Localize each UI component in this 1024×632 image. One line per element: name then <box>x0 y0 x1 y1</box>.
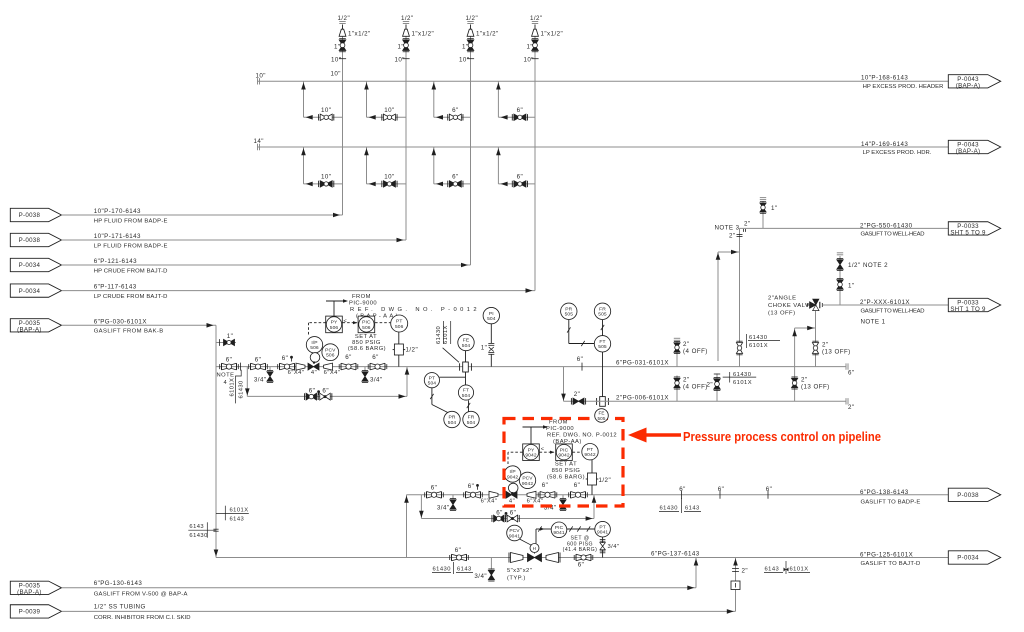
pipe 2"PG-006-6101X <box>564 400 847 402</box>
flow arrow up riser B3 <box>432 148 437 155</box>
svg-text:6": 6" <box>468 483 475 490</box>
svg-text:10": 10" <box>384 107 394 114</box>
orifice flange FE-504 <box>463 362 469 372</box>
flow arrow into riser 3 <box>461 263 468 268</box>
bypass valve B1 <box>320 181 332 187</box>
svg-text:I/P: I/P <box>311 340 317 346</box>
svg-text:1": 1" <box>462 44 469 51</box>
svg-text:10": 10" <box>256 73 266 80</box>
flag P-0033 SHT 5 TO 9 <box>948 222 1000 235</box>
svg-text:(BAP-A): (BAP-A) <box>956 148 981 155</box>
svg-text:1": 1" <box>771 205 778 212</box>
tap PT-9042 <box>591 460 593 473</box>
svg-text:6": 6" <box>322 388 329 395</box>
svg-text:(4 OFF): (4 OFF) <box>683 348 708 355</box>
flow arrow up riser A3 <box>432 83 437 90</box>
relief valve 1"x1/2" on main 2 <box>403 29 410 36</box>
bypass valve A2 <box>383 114 395 120</box>
svg-text:HP CRUDE FROM BAJT-D: HP CRUDE FROM BAJT-D <box>94 268 168 274</box>
bleed dot above spool 3 <box>290 356 293 359</box>
stub 2" (4 OFF) above main line <box>676 342 678 367</box>
indicator PI-504 <box>483 307 499 323</box>
svg-text:6143: 6143 <box>457 567 472 573</box>
stub 1/2" and 1" valves above P-XXX line <box>839 256 841 305</box>
pipe 2"PG-550-61430 to wellhead <box>740 227 949 229</box>
svg-text:PY: PY <box>528 447 535 453</box>
svg-text:505: 505 <box>598 312 607 318</box>
bypass under PCV-506: down leg <box>246 367 248 397</box>
svg-text:10": 10" <box>331 71 341 78</box>
tick 6" on main line <box>581 363 583 371</box>
signal PIC-9042 to PT-9042 <box>573 451 582 453</box>
bypass valve 6" a <box>306 393 317 400</box>
flow element bubble FE-505 over box edge <box>595 409 609 423</box>
flow arrow left bypass A4 <box>501 115 508 120</box>
end cap header 1 <box>257 78 259 84</box>
svg-text:6": 6" <box>574 482 581 489</box>
spool 6" b2 <box>465 492 467 499</box>
stub 2" (4 OFF) above 2" line <box>676 376 678 402</box>
svg-text:6"PG-031-6101X: 6"PG-031-6101X <box>616 360 669 367</box>
flow arrow down at manifold bottom corner <box>214 550 219 557</box>
flag P-0034 out <box>948 551 1000 564</box>
pipe main line 6"PG-031-6101X <box>216 366 846 368</box>
flag P-0038 input 2 <box>10 233 61 246</box>
svg-text:P-0038: P-0038 <box>19 237 41 244</box>
svg-text:PR: PR <box>565 307 572 313</box>
svg-text:1": 1" <box>227 333 234 340</box>
pipe bypass run B4 <box>498 183 535 185</box>
svg-text:1/2": 1/2" <box>466 15 479 22</box>
flag P-0038 out <box>948 488 1000 501</box>
flow arrow into manifold corner <box>207 323 214 328</box>
reducer 4x6 right of PCV-9042 <box>527 491 536 498</box>
svg-text:9041: 9041 <box>553 530 564 536</box>
svg-text:6"P-117-6143: 6"P-117-6143 <box>94 284 137 291</box>
bypass valve 6" b <box>320 393 331 400</box>
svg-text:P-0034: P-0034 <box>19 262 41 269</box>
svg-text:5"x3"x2": 5"x3"x2" <box>507 568 532 574</box>
svg-text:1"x1/2": 1"x1/2" <box>476 30 499 37</box>
pipe 6"PG-138-6143 gaslift to BADP-E <box>407 494 949 496</box>
tap PT-506 to main line <box>398 332 400 344</box>
svg-text:FT: FT <box>463 388 469 394</box>
controller PIC-506 <box>358 316 375 333</box>
svg-text:6"X4": 6"X4" <box>527 498 544 504</box>
svg-text:9042: 9042 <box>584 452 595 458</box>
bleed dot above spool b2 <box>476 484 479 487</box>
spec break tick on main 4 <box>531 58 538 60</box>
reducer 6x4 left of PCV-9042 <box>489 491 498 498</box>
ball valve 1" on main 1 <box>339 40 346 51</box>
flag P-0035 (BAP-A) gaslift from BAK-B <box>10 319 61 332</box>
svg-text:9041: 9041 <box>597 530 608 536</box>
pipe gaslift from V-500 <box>62 587 697 589</box>
spec break tick on main 2 <box>402 58 409 60</box>
svg-text:PT: PT <box>587 447 593 453</box>
stub 2" capped above 2" line at 717 <box>716 374 718 402</box>
pipe vertical main 3 <box>470 25 472 266</box>
svg-text:6"PG-137-6143: 6"PG-137-6143 <box>651 550 700 557</box>
tap PI-504 to main line <box>490 324 492 343</box>
pipe vertical main 4 <box>534 25 536 291</box>
signal PT-504 to PR-504 <box>431 388 433 405</box>
svg-text:HP FLUID FROM BADP-E: HP FLUID FROM BADP-E <box>94 218 168 224</box>
svg-text:6143: 6143 <box>230 516 245 522</box>
svg-text:2": 2" <box>729 233 736 240</box>
ball valve 1" on main 2 <box>403 40 410 51</box>
svg-text:6"PG-125-6101X: 6"PG-125-6101X <box>860 552 913 559</box>
pipe bypass riser A2 <box>366 81 368 117</box>
flag P-0034 input 4 <box>10 284 61 297</box>
svg-text:505: 505 <box>598 344 607 350</box>
svg-text:(BAP-A): (BAP-A) <box>17 326 42 333</box>
svg-text:504: 504 <box>448 420 457 426</box>
reducer 6x4 left of PCV-506 <box>296 363 305 370</box>
svg-text:FROM: FROM <box>352 294 371 300</box>
svg-text:6": 6" <box>455 547 462 554</box>
stub 3/4" drain c1 <box>490 558 492 570</box>
tick after spool 1 <box>240 363 242 371</box>
stub 1" vent on manifold <box>216 342 236 344</box>
red callout arrow <box>628 428 647 443</box>
svg-text:6": 6" <box>452 173 459 180</box>
stub 3/4" drain b1 <box>452 495 454 499</box>
valve 2" (13 OFF) on choke riser <box>812 343 818 354</box>
svg-text:1/2": 1/2" <box>406 347 419 354</box>
pipe bypass run B3 <box>434 183 471 185</box>
pipe vertical main 2 <box>405 25 407 241</box>
signal PY-506 to PIC-506 dashed <box>343 322 358 324</box>
svg-text:1/2": 1/2" <box>530 15 543 22</box>
choke riser from main line <box>815 311 817 367</box>
end cap header 2 <box>257 144 259 150</box>
svg-text:NOTE 1: NOTE 1 <box>861 318 886 325</box>
svg-text:61430: 61430 <box>189 533 207 539</box>
svg-text:H: H <box>533 546 537 551</box>
svg-text:FR: FR <box>599 307 606 313</box>
spec break 6143/61430 on manifold <box>188 529 215 531</box>
svg-text:2"PG-550-61430: 2"PG-550-61430 <box>860 222 913 229</box>
leader PY-9042 to note <box>530 427 532 444</box>
break ticks below corner <box>743 229 745 232</box>
svg-text:506: 506 <box>310 345 319 351</box>
svg-text:CORR. INHIBITOR FROM C.I. SKID: CORR. INHIBITOR FROM C.I. SKID <box>94 615 191 621</box>
pipe 14" LP excess prod header <box>258 146 949 148</box>
flag P-0033 SHT 1 TO 9 <box>948 298 1000 311</box>
spec break 6143/6101X on BAJT-D east <box>764 572 783 574</box>
svg-text:2"ANGLE: 2"ANGLE <box>768 295 797 301</box>
actuator diaphragm PCV-506 <box>310 353 320 363</box>
svg-text:2"P-XXX-6101X: 2"P-XXX-6101X <box>860 299 910 306</box>
svg-text:2": 2" <box>574 391 581 398</box>
svg-text:3/4": 3/4" <box>608 544 620 550</box>
leader from PY-506 to note <box>333 301 335 316</box>
svg-text:P-0034: P-0034 <box>19 288 41 295</box>
svg-text:1": 1" <box>527 44 534 51</box>
svg-text:PIC-9000: PIC-9000 <box>349 300 377 306</box>
svg-text:505: 505 <box>598 416 606 421</box>
svg-text:61430: 61430 <box>433 567 451 573</box>
svg-text:1": 1" <box>334 44 341 51</box>
svg-text:SHT 5 TO 9: SHT 5 TO 9 <box>950 229 986 236</box>
relief valve 1"x1/2" on main 4 <box>532 29 539 36</box>
flow arrow left bypass B3 <box>436 182 443 187</box>
flow arrow into riser 2 <box>397 238 404 243</box>
pipe 2"P-XXX-6101X to wellhead <box>822 304 948 306</box>
controller PIC-9041 <box>551 522 567 538</box>
pipe input line 2 <box>62 239 407 241</box>
svg-text:3/4": 3/4" <box>437 505 450 512</box>
pipe bypass run A3 <box>434 116 471 118</box>
bypass valve B3 <box>449 181 461 187</box>
svg-text:61430: 61430 <box>733 372 751 378</box>
recorder FR-504 <box>463 411 479 427</box>
valve 1" vent <box>224 339 235 345</box>
svg-text:(13 OFF): (13 OFF) <box>768 310 796 316</box>
svg-text:(41.4 BARG): (41.4 BARG) <box>563 547 598 553</box>
svg-text:10"P-170-6143: 10"P-170-6143 <box>94 208 141 215</box>
svg-text:6": 6" <box>577 356 584 363</box>
spec break 61430/6101X rotated at FE-504 <box>443 321 445 344</box>
transmitter PT-506 <box>391 315 408 332</box>
svg-text:6": 6" <box>517 107 524 114</box>
svg-text:NOTE: NOTE <box>217 373 235 379</box>
svg-text:504: 504 <box>428 381 437 387</box>
svg-text:HP EXCESS PROD. HEADER: HP EXCESS PROD. HEADER <box>863 84 944 90</box>
recorder PR-505 <box>561 303 577 319</box>
spool 6" c1 <box>451 554 453 561</box>
control valve PCV-9041 body <box>528 554 542 562</box>
control valve PCV-506 <box>308 363 319 370</box>
svg-text:FROM: FROM <box>549 419 568 425</box>
flag P-0034 input 3 <box>10 258 61 271</box>
svg-text:1/2": 1/2" <box>848 262 861 269</box>
pipe bypass riser B2 <box>366 147 368 184</box>
svg-text:6": 6" <box>345 354 352 361</box>
svg-text:6101X: 6101X <box>230 378 236 397</box>
svg-text:PI: PI <box>489 311 494 317</box>
svg-text:LP EXCESS PROD. HDR.: LP EXCESS PROD. HDR. <box>863 150 932 156</box>
svg-text:GASLIFT TO BAJT-D: GASLIFT TO BAJT-D <box>861 561 921 567</box>
svg-text:6"X4": 6"X4" <box>288 370 305 376</box>
pipe corr inhibitor from C.I. skid <box>62 610 736 612</box>
pipe input line 4 <box>62 290 536 292</box>
end cap main line <box>845 363 847 369</box>
valve 2" on riser 739 <box>736 343 742 354</box>
svg-text:6": 6" <box>517 173 524 180</box>
handwheel actuator H <box>534 548 536 554</box>
signal H to PIC-9041 <box>535 529 537 543</box>
svg-text:PT: PT <box>396 319 402 325</box>
valve 2" on 2" line <box>573 398 584 404</box>
svg-text:4": 4" <box>311 370 317 376</box>
svg-text:NOTE 3: NOTE 3 <box>715 224 740 231</box>
flow arrow left bypass A2 <box>369 115 376 120</box>
flow arrow up riser A2 <box>364 83 369 90</box>
stub 3/4" drain b <box>364 367 366 371</box>
link orifice to FT-504 <box>465 372 467 385</box>
transducer I/P-9042 <box>504 466 520 482</box>
svg-text:6101X: 6101X <box>749 343 768 349</box>
controller PIC-9042 <box>556 444 573 461</box>
ball valve 1" on main 3 <box>467 40 474 51</box>
svg-text:<: < <box>344 319 348 325</box>
actuator diaphragm PCV-9042 <box>508 483 518 493</box>
svg-text:(13 OFF): (13 OFF) <box>822 349 851 356</box>
relief valve 1"x1/2" on main 1 <box>339 29 346 36</box>
flow element bubble FE-504 <box>458 334 474 350</box>
flow arrow left bypass B2 <box>369 182 376 187</box>
pipe bypass run A1 <box>304 116 343 118</box>
svg-text:61430: 61430 <box>238 380 244 398</box>
svg-text:6": 6" <box>679 486 686 493</box>
riser corr inhibitor to BAJT-D line <box>735 558 737 612</box>
svg-text:4": 4" <box>509 498 515 504</box>
svg-text:GASLIFT FROM BAK-B: GASLIFT FROM BAK-B <box>94 329 164 335</box>
svg-text:9041: 9041 <box>509 533 520 539</box>
svg-text:2": 2" <box>801 377 808 384</box>
computing element PY-506 <box>326 316 343 333</box>
reducer 4x6 right of PCV-506 <box>324 363 333 370</box>
svg-text:2": 2" <box>744 220 751 227</box>
spec break tick on main 3 <box>467 58 474 60</box>
svg-text:SET AT: SET AT <box>555 461 577 467</box>
spec break 61430/6101X right of riser <box>746 334 748 348</box>
bypass valve A3 <box>449 114 461 120</box>
svg-text:6"X4": 6"X4" <box>324 370 341 376</box>
svg-text:6": 6" <box>372 354 379 361</box>
bypass valve A4 <box>514 114 526 120</box>
svg-text:61430: 61430 <box>749 335 767 341</box>
svg-text:PIC: PIC <box>555 525 564 531</box>
svg-text:6": 6" <box>431 485 438 492</box>
bypass 9042 down leg <box>420 495 422 519</box>
svg-text:9042: 9042 <box>525 453 536 459</box>
bypass up leg <box>406 367 408 397</box>
svg-text:PCV: PCV <box>509 528 520 534</box>
link FE-504 bubble to orifice <box>465 351 467 362</box>
spec break 61430/6101X at 717 stub <box>723 376 757 378</box>
svg-text:PT: PT <box>599 524 605 530</box>
svg-text:<: < <box>541 446 545 452</box>
bleed dot on bypass <box>317 390 320 393</box>
svg-text:LP FLUID FROM BADP-E: LP FLUID FROM BADP-E <box>94 243 168 249</box>
orifice flange FE-505 on 2" line <box>600 397 606 407</box>
svg-text:6": 6" <box>848 370 855 377</box>
flag P-0035 (BAP-A) V-500 <box>10 581 61 594</box>
svg-text:10": 10" <box>459 56 469 63</box>
svg-text:6": 6" <box>452 107 459 114</box>
tick 2" on riser <box>737 234 743 236</box>
svg-text:(TYP.): (TYP.) <box>507 575 526 581</box>
svg-text:850 PSIG: 850 PSIG <box>552 468 581 474</box>
svg-text:2": 2" <box>822 342 829 349</box>
pipe 6"PG-137/125 gaslift to BAJT-D <box>216 557 948 559</box>
svg-text:(4 OFF): (4 OFF) <box>683 384 708 391</box>
reducer 3x5 right <box>546 553 559 563</box>
svg-text:1": 1" <box>481 344 488 351</box>
svg-text:1": 1" <box>848 283 855 290</box>
svg-text:NOTE 2: NOTE 2 <box>863 262 888 269</box>
svg-text:4: 4 <box>224 380 228 386</box>
relief valve 1"x1/2" on main 3 <box>467 29 474 36</box>
spec break tick on main 1 <box>339 58 346 60</box>
spool 6" no.2 on main line <box>250 363 252 370</box>
pipe input line 1 <box>62 214 343 216</box>
signal PIC-506 to PT-506 <box>375 322 390 324</box>
spec break 61430/6143 on BAJT-D line <box>432 572 451 574</box>
svg-text:LP CRUDE FROM BAJT-D: LP CRUDE FROM BAJT-D <box>94 294 168 300</box>
svg-text:6": 6" <box>542 482 549 489</box>
signal FT-504 to FR-504 <box>468 400 470 411</box>
note 3 link to PG-550 riser <box>718 251 740 253</box>
svg-text:1": 1" <box>398 44 405 51</box>
spool 6" b1 <box>426 492 428 499</box>
svg-text:6101X: 6101X <box>443 325 449 344</box>
svg-text:(13 OFF): (13 OFF) <box>801 384 830 391</box>
control valve PCV-9042 <box>506 491 517 498</box>
svg-text:6": 6" <box>226 356 233 363</box>
flow arrow left bypass B4 <box>501 182 508 187</box>
flow arrow left bypass A3 <box>436 115 443 120</box>
svg-text:PR: PR <box>449 415 456 421</box>
svg-text:PIC: PIC <box>362 320 371 326</box>
svg-text:504: 504 <box>467 420 476 426</box>
svg-text:10": 10" <box>395 56 405 63</box>
svg-text:P-0038: P-0038 <box>957 492 979 499</box>
svg-text:6": 6" <box>496 509 503 516</box>
svg-text:6101X: 6101X <box>790 567 809 573</box>
signal FT-505 to PR-505 <box>568 320 570 344</box>
signal PY-9042 to PIC-9042 dashed <box>540 451 555 453</box>
svg-text:PCV: PCV <box>522 476 533 482</box>
spool 6" no.1 on main line <box>221 363 223 370</box>
svg-text:3/4": 3/4" <box>370 377 383 384</box>
svg-text:CHOKE VALVE: CHOKE VALVE <box>768 303 814 309</box>
svg-text:10"P-171-6143: 10"P-171-6143 <box>94 233 141 240</box>
spec break 2" on riser <box>732 568 739 570</box>
svg-text:P-0038: P-0038 <box>19 212 41 219</box>
svg-text:(BAP-A): (BAP-A) <box>17 589 42 596</box>
signal FT-505 to FR-505 <box>602 320 604 336</box>
svg-text:P-0039: P-0039 <box>19 609 41 616</box>
svg-text:6143: 6143 <box>765 567 780 573</box>
svg-text:6101X: 6101X <box>733 380 752 386</box>
svg-text:506: 506 <box>330 325 339 331</box>
svg-text:61430: 61430 <box>660 506 678 512</box>
transmitter FT-504 <box>458 385 473 400</box>
svg-text:6"X4": 6"X4" <box>481 498 498 504</box>
valve 2" (13 OFF) below main line <box>792 378 798 388</box>
signal PY-9042 to I/P-9042 dashed <box>508 451 523 453</box>
svg-text:10"P-168-6143: 10"P-168-6143 <box>861 74 908 81</box>
svg-text:2": 2" <box>848 404 855 411</box>
svg-text:506: 506 <box>395 324 404 330</box>
svg-text:1/2" SS TUBING: 1/2" SS TUBING <box>94 604 146 611</box>
svg-text:6"P-121-6143: 6"P-121-6143 <box>94 258 137 265</box>
pipe bypass riser A1 <box>303 81 305 117</box>
bypass valve 6" b <box>507 515 518 522</box>
flow arrow up riser A4 <box>496 83 501 90</box>
svg-text:GASLIFT TO WELL-HEAD: GASLIFT TO WELL-HEAD <box>861 309 925 315</box>
svg-text:1/2": 1/2" <box>338 15 351 22</box>
leader to FE-504 <box>443 348 459 363</box>
bleed dot on bypass 9042 <box>505 512 508 515</box>
svg-text:2": 2" <box>706 382 713 389</box>
pipe bypass riser A3 <box>433 81 435 117</box>
svg-text:3/4": 3/4" <box>474 573 487 580</box>
